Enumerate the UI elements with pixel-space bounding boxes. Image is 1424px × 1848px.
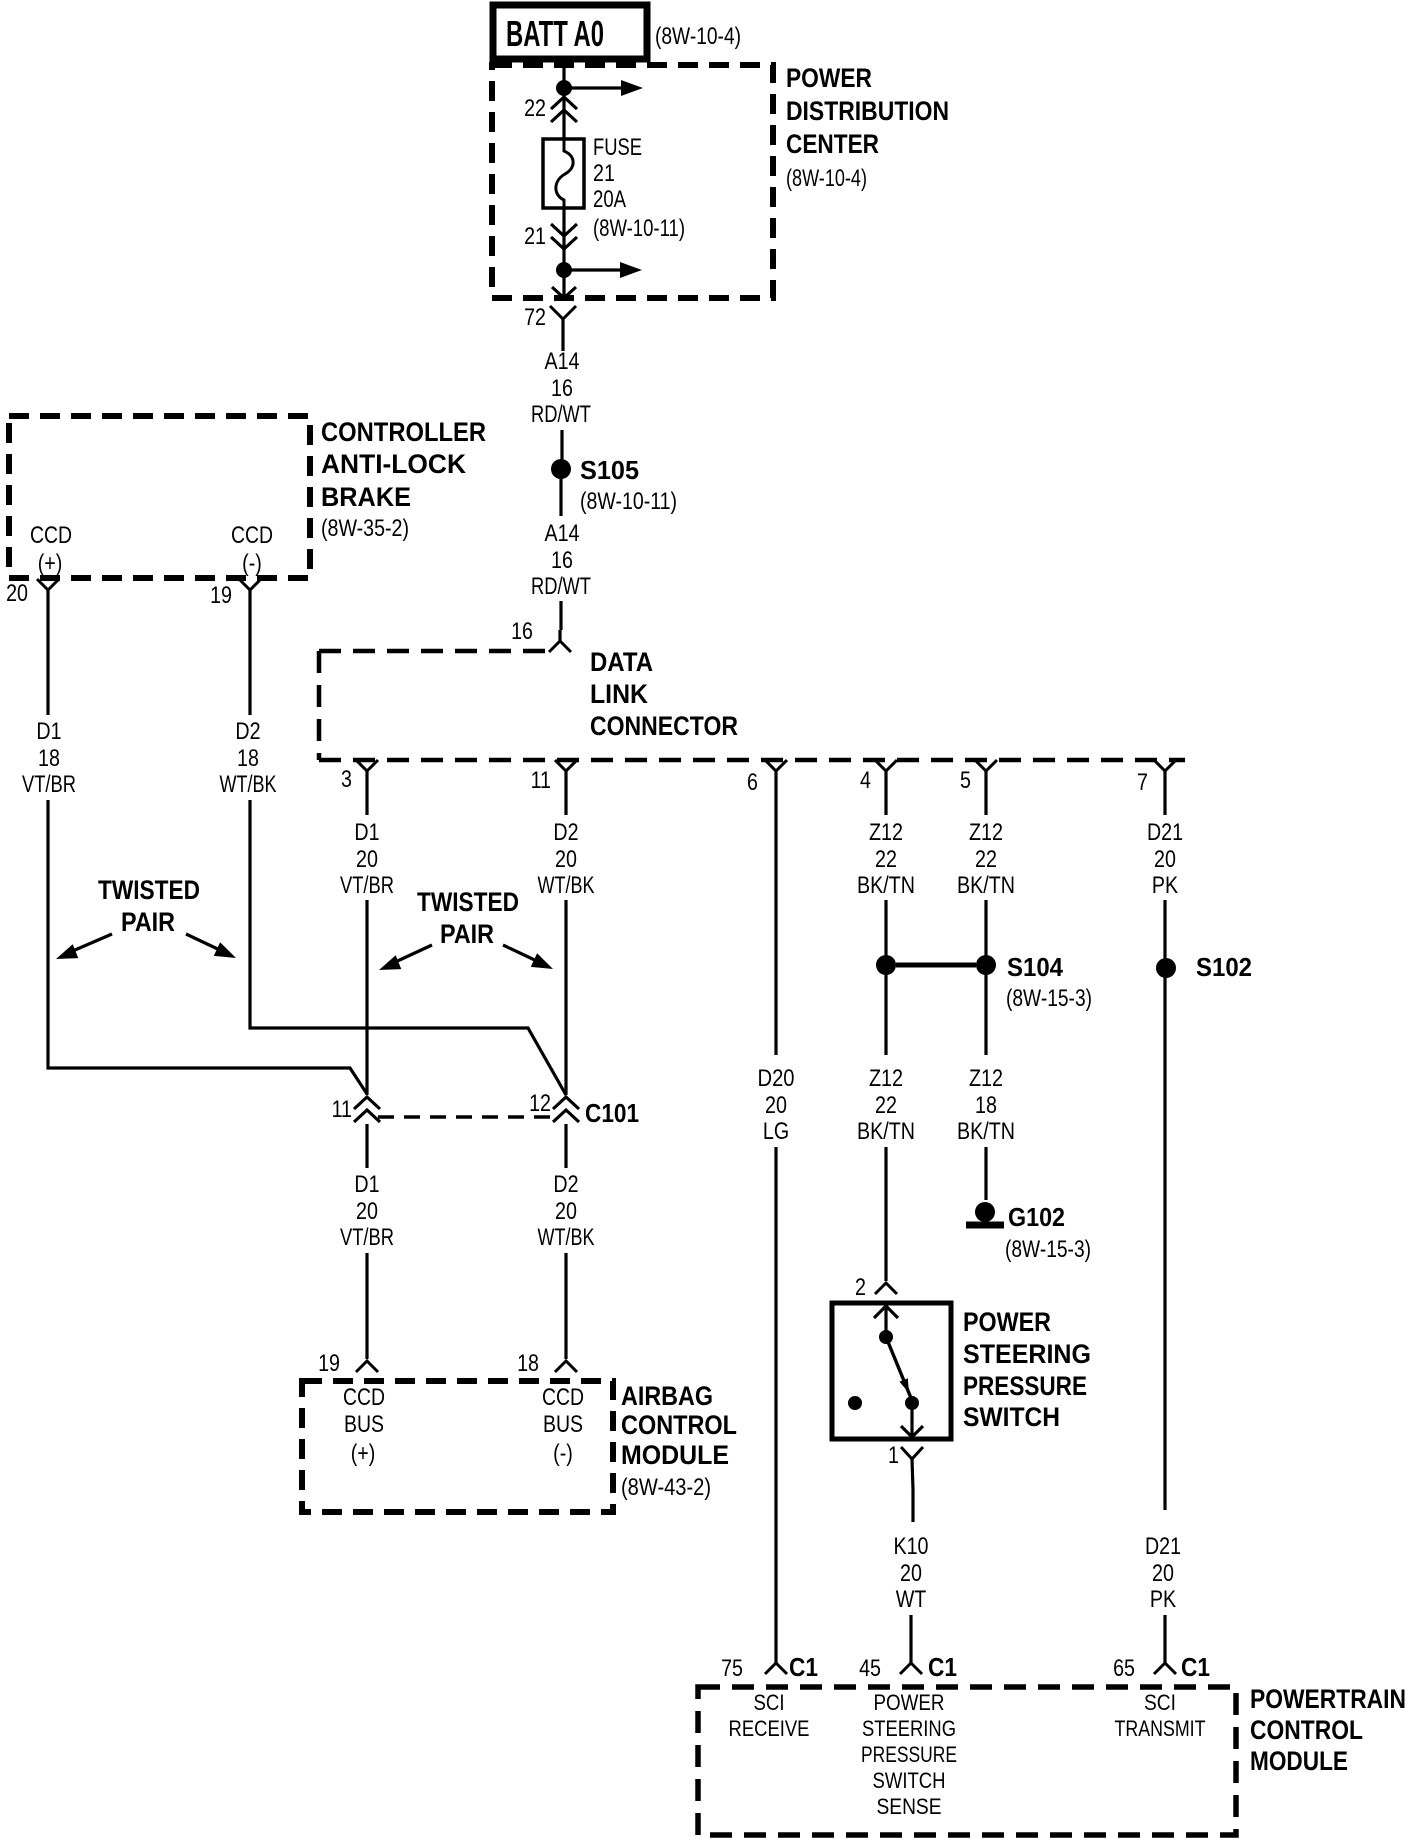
- wire D1 to airbag control module: [365, 1253, 368, 1359]
- wire D21 through S102: [1163, 900, 1166, 1510]
- battery feed box BATT A0: [493, 5, 647, 59]
- svg-text:18: 18: [38, 744, 60, 771]
- twisted pair right callout arrow (to D2 wire): [503, 945, 541, 963]
- connector pin 5: [975, 760, 997, 771]
- svg-text:D21: D21: [1145, 1533, 1181, 1560]
- switch input arrow inside box: [874, 1306, 898, 1318]
- svg-text:STEERING: STEERING: [862, 1716, 956, 1741]
- svg-text:(+): (+): [38, 549, 63, 576]
- connector pin 19: [239, 579, 261, 590]
- svg-text:A14: A14: [545, 520, 580, 547]
- svg-text:ANTI-LOCK: ANTI-LOCK: [321, 449, 466, 479]
- splice S104 right dot: [976, 955, 996, 975]
- svg-text:POWER: POWER: [874, 1690, 945, 1715]
- svg-text:20: 20: [900, 1559, 922, 1586]
- wire D2 to airbag control module: [564, 1253, 567, 1359]
- connector pin 2 PSPS: [875, 1283, 897, 1294]
- svg-text:22: 22: [875, 845, 897, 872]
- svg-text:C1: C1: [1181, 1652, 1210, 1682]
- svg-text:6: 6: [747, 768, 758, 795]
- svg-text:CENTER: CENTER: [786, 129, 879, 159]
- C101 dashed link line: [378, 1115, 554, 1119]
- svg-text:STEERING: STEERING: [963, 1339, 1091, 1369]
- wire Z12 pin5 through S104: [984, 900, 987, 1055]
- svg-text:(8W-15-3): (8W-15-3): [1006, 985, 1092, 1012]
- svg-text:PRESSURE: PRESSURE: [861, 1742, 957, 1767]
- svg-text:(8W-35-2): (8W-35-2): [321, 515, 409, 542]
- svg-text:WT/BK: WT/BK: [538, 1224, 595, 1251]
- svg-text:TRANSMIT: TRANSMIT: [1115, 1716, 1206, 1741]
- svg-text:BUS: BUS: [543, 1411, 583, 1438]
- connector pin 7: [1154, 760, 1176, 771]
- svg-text:BK/TN: BK/TN: [857, 1118, 915, 1145]
- svg-text:20A: 20A: [593, 186, 626, 213]
- svg-text:20: 20: [555, 845, 577, 872]
- wire D21 to PCM pin 65: [1163, 1615, 1166, 1659]
- svg-text:11: 11: [531, 766, 551, 793]
- powertrain control module dashed box: [698, 1687, 1236, 1835]
- wire D20 to PCM pin 75: [774, 1147, 777, 1658]
- svg-text:RD/WT: RD/WT: [531, 573, 591, 600]
- svg-text:WT/BK: WT/BK: [538, 872, 595, 899]
- svg-text:20: 20: [555, 1197, 577, 1224]
- wire CCD(+) upper segment: [46, 612, 49, 715]
- splice S102: [1156, 958, 1176, 978]
- svg-text:G102: G102: [1008, 1202, 1065, 1232]
- svg-text:19: 19: [318, 1349, 340, 1376]
- connector pin 4: [875, 760, 897, 771]
- svg-text:CCD: CCD: [30, 522, 72, 549]
- svg-text:4: 4: [860, 766, 871, 793]
- svg-text:MODULE: MODULE: [1250, 1746, 1348, 1776]
- wire D2 to C101: [564, 900, 567, 1095]
- svg-text:C1: C1: [928, 1652, 957, 1682]
- svg-text:(8W-10-11): (8W-10-11): [580, 488, 677, 515]
- svg-text:20: 20: [1154, 845, 1176, 872]
- svg-text:MODULE: MODULE: [621, 1440, 729, 1470]
- wire Z12 to ground G102: [984, 1147, 987, 1200]
- fuse element curve: [556, 139, 573, 208]
- svg-text:D2: D2: [235, 717, 260, 744]
- svg-text:18: 18: [237, 744, 259, 771]
- svg-text:18: 18: [975, 1091, 997, 1118]
- svg-text:20: 20: [1152, 1559, 1174, 1586]
- svg-text:22: 22: [975, 845, 997, 872]
- wire CCD(-) run to C101: [250, 800, 566, 1095]
- svg-text:D1: D1: [354, 1170, 379, 1197]
- wire fuse to PDC exit: [562, 208, 565, 296]
- svg-text:LG: LG: [763, 1117, 789, 1144]
- svg-text:SCI: SCI: [754, 1690, 785, 1715]
- junction dot above fuse: [556, 80, 572, 96]
- svg-text:(8W-15-3): (8W-15-3): [1005, 1236, 1091, 1263]
- svg-text:12: 12: [529, 1089, 551, 1116]
- connector pin 16 into DLC: [558, 630, 561, 641]
- data link connector dashed box (left edge): [317, 651, 322, 760]
- switch output contact dot: [905, 1396, 919, 1410]
- svg-text:DISTRIBUTION: DISTRIBUTION: [786, 96, 949, 126]
- svg-text:CONTROL: CONTROL: [1250, 1715, 1363, 1745]
- svg-text:PAIR: PAIR: [121, 907, 175, 937]
- connector pin 3: [356, 760, 378, 771]
- svg-text:Z12: Z12: [969, 1065, 1003, 1092]
- svg-text:CCD: CCD: [542, 1384, 584, 1411]
- svg-text:BK/TN: BK/TN: [957, 1118, 1015, 1145]
- svg-text:VT/BR: VT/BR: [340, 872, 394, 899]
- fuse box: [543, 139, 584, 208]
- twisted pair right callout arrow (to D1 wire): [391, 945, 432, 964]
- svg-text:BK/TN: BK/TN: [857, 872, 915, 899]
- connector chevrons pin 21: [551, 224, 577, 236]
- twisted pair left callout arrow (to CCD+ wire): [68, 934, 112, 953]
- ground G102 symbol: [975, 1202, 995, 1222]
- svg-text:SENSE: SENSE: [877, 1794, 942, 1819]
- svg-text:D1: D1: [354, 818, 379, 845]
- svg-text:C1: C1: [789, 1652, 818, 1682]
- connector pin 6: [765, 760, 787, 771]
- svg-text:POWER: POWER: [786, 63, 872, 93]
- svg-text:20: 20: [6, 579, 28, 606]
- svg-text:(-): (-): [553, 1439, 573, 1466]
- male pin arrow at PDC exit: [552, 287, 576, 298]
- svg-text:SWITCH: SWITCH: [963, 1402, 1060, 1432]
- splice S105: [551, 459, 571, 479]
- wire K10 upper segment: [911, 1490, 914, 1522]
- svg-text:16: 16: [551, 374, 573, 401]
- svg-text:CCD: CCD: [343, 1384, 385, 1411]
- airbag control module dashed box: [302, 1381, 613, 1512]
- switch open contact dot: [848, 1396, 862, 1410]
- power distribution center dashed box: [492, 65, 773, 298]
- svg-text:BUS: BUS: [344, 1411, 384, 1438]
- svg-text:CCD: CCD: [231, 522, 273, 549]
- svg-text:21: 21: [593, 159, 615, 186]
- svg-text:BK/TN: BK/TN: [957, 872, 1015, 899]
- wire Z12 to power steering pressure switch: [884, 1147, 887, 1281]
- connector pin 65 C1: [1163, 1659, 1166, 1663]
- svg-text:1: 1: [888, 1441, 899, 1468]
- svg-text:11: 11: [332, 1095, 352, 1122]
- svg-text:3: 3: [341, 765, 352, 792]
- arrow tap to other circuits (bottom): [570, 268, 624, 271]
- svg-text:21: 21: [524, 222, 546, 249]
- svg-text:CONTROL: CONTROL: [621, 1410, 737, 1440]
- connector pin 45 C1: [909, 1659, 912, 1663]
- data link connector dashed box (top edge): [319, 649, 546, 654]
- svg-text:(8W-10-4): (8W-10-4): [655, 23, 741, 50]
- svg-text:72: 72: [524, 303, 546, 330]
- svg-text:20: 20: [356, 1197, 378, 1224]
- svg-text:PAIR: PAIR: [440, 919, 494, 949]
- svg-text:POWER: POWER: [963, 1307, 1051, 1337]
- svg-text:2: 2: [855, 1273, 866, 1300]
- svg-text:PRESSURE: PRESSURE: [963, 1371, 1087, 1401]
- connector pin 20: [37, 579, 59, 590]
- svg-text:5: 5: [960, 766, 971, 793]
- svg-text:D1: D1: [36, 717, 61, 744]
- svg-text:LINK: LINK: [590, 679, 648, 709]
- wire K10 to PCM pin 45: [909, 1615, 912, 1659]
- connector pin 18 ACM: [555, 1361, 577, 1372]
- svg-text:AIRBAG: AIRBAG: [621, 1381, 713, 1411]
- svg-text:D21: D21: [1147, 819, 1183, 846]
- svg-text:45: 45: [859, 1654, 881, 1681]
- svg-text:Z12: Z12: [969, 819, 1003, 846]
- svg-text:WT/BK: WT/BK: [220, 771, 277, 798]
- svg-text:(+): (+): [351, 1439, 376, 1466]
- wire CCD(+) run to C101: [48, 800, 367, 1094]
- svg-text:(8W-10-4): (8W-10-4): [786, 165, 867, 192]
- svg-text:20: 20: [765, 1091, 787, 1118]
- power steering pressure switch box: [832, 1303, 951, 1439]
- connector C101 cavity 11 chevrons: [354, 1097, 380, 1109]
- svg-text:VT/BR: VT/BR: [22, 771, 76, 798]
- wire Z12 pin4 to S104: [884, 900, 887, 965]
- svg-text:(8W-43-2): (8W-43-2): [621, 1474, 711, 1501]
- svg-text:(8W-10-11): (8W-10-11): [593, 215, 685, 242]
- svg-text:(-): (-): [242, 549, 262, 576]
- data link connector dashed box (bottom edge): [319, 758, 1185, 763]
- female connector Y pin 72: [550, 306, 576, 319]
- connector pin 11 DLC: [555, 760, 577, 771]
- svg-text:19: 19: [210, 581, 232, 608]
- connector chevrons pin 22: [551, 97, 577, 109]
- svg-text:D20: D20: [758, 1065, 795, 1092]
- wire D1 below C101: [365, 1124, 368, 1168]
- svg-text:C101: C101: [585, 1098, 639, 1128]
- connector pin 75 C1: [774, 1658, 777, 1663]
- svg-text:18: 18: [517, 1349, 539, 1376]
- svg-text:RECEIVE: RECEIVE: [729, 1716, 810, 1741]
- wire S105 down: [559, 479, 562, 516]
- controller anti-lock brake dashed box: [9, 416, 310, 578]
- svg-text:S102: S102: [1196, 952, 1252, 982]
- svg-text:FUSE: FUSE: [593, 134, 642, 161]
- svg-text:22: 22: [524, 94, 546, 121]
- connector C101 cavity 12 chevrons: [553, 1097, 579, 1109]
- switch common contact dot: [879, 1330, 893, 1344]
- female connector Y pin 1: [901, 1447, 923, 1459]
- male pin arrow at PSPS exit: [901, 1426, 923, 1437]
- svg-text:POWERTRAIN: POWERTRAIN: [1250, 1684, 1406, 1714]
- svg-text:A14: A14: [545, 348, 580, 375]
- svg-text:16: 16: [551, 546, 573, 573]
- svg-text:BATT A0: BATT A0: [506, 13, 604, 54]
- svg-text:TWISTED: TWISTED: [98, 875, 200, 905]
- twisted pair left callout arrow (to CCD- wire): [186, 934, 224, 952]
- svg-text:K10: K10: [894, 1533, 929, 1560]
- svg-text:DATA: DATA: [590, 647, 653, 677]
- svg-text:RD/WT: RD/WT: [531, 401, 591, 428]
- wire RD/WT to splice S105: [560, 430, 563, 462]
- arrow tap to other circuits (top): [570, 86, 625, 89]
- wire CCD(-) upper segment: [248, 612, 251, 715]
- svg-text:SCI: SCI: [1144, 1690, 1176, 1715]
- splice S104 link wire: [896, 963, 976, 968]
- svg-text:D2: D2: [553, 1170, 578, 1197]
- svg-text:20: 20: [356, 845, 378, 872]
- wire Z12 below S104: [884, 972, 887, 1055]
- svg-text:Z12: Z12: [869, 819, 903, 846]
- wire switch output to box exit: [910, 1403, 913, 1437]
- wire D2 below C101: [564, 1124, 567, 1168]
- svg-text:75: 75: [721, 1654, 743, 1681]
- wire RD/WT to data link connector: [559, 601, 562, 630]
- splice S104 left dot: [876, 955, 896, 975]
- svg-text:PK: PK: [1152, 871, 1179, 898]
- switch blade: [886, 1337, 911, 1398]
- connector pin 19 ACM: [356, 1361, 378, 1372]
- svg-text:PK: PK: [1150, 1585, 1177, 1612]
- svg-text:SWITCH: SWITCH: [873, 1768, 946, 1793]
- wire stub below pin 72: [561, 344, 564, 351]
- svg-text:65: 65: [1113, 1654, 1135, 1681]
- svg-text:7: 7: [1137, 768, 1148, 795]
- svg-text:CONNECTOR: CONNECTOR: [590, 711, 738, 741]
- svg-text:BRAKE: BRAKE: [321, 482, 411, 512]
- svg-text:D2: D2: [553, 818, 578, 845]
- junction dot below fuse: [556, 262, 572, 278]
- svg-text:22: 22: [875, 1091, 897, 1118]
- svg-text:TWISTED: TWISTED: [417, 887, 519, 917]
- wire D1 to C101: [365, 900, 368, 1095]
- svg-text:16: 16: [511, 617, 533, 644]
- svg-text:CONTROLLER: CONTROLLER: [321, 417, 486, 447]
- svg-text:S104: S104: [1007, 952, 1063, 982]
- svg-text:VT/BR: VT/BR: [340, 1224, 394, 1251]
- wire BATT A0 to fuse: [562, 59, 565, 139]
- svg-text:WT: WT: [896, 1585, 927, 1612]
- svg-text:S105: S105: [580, 455, 639, 485]
- svg-text:Z12: Z12: [869, 1065, 903, 1092]
